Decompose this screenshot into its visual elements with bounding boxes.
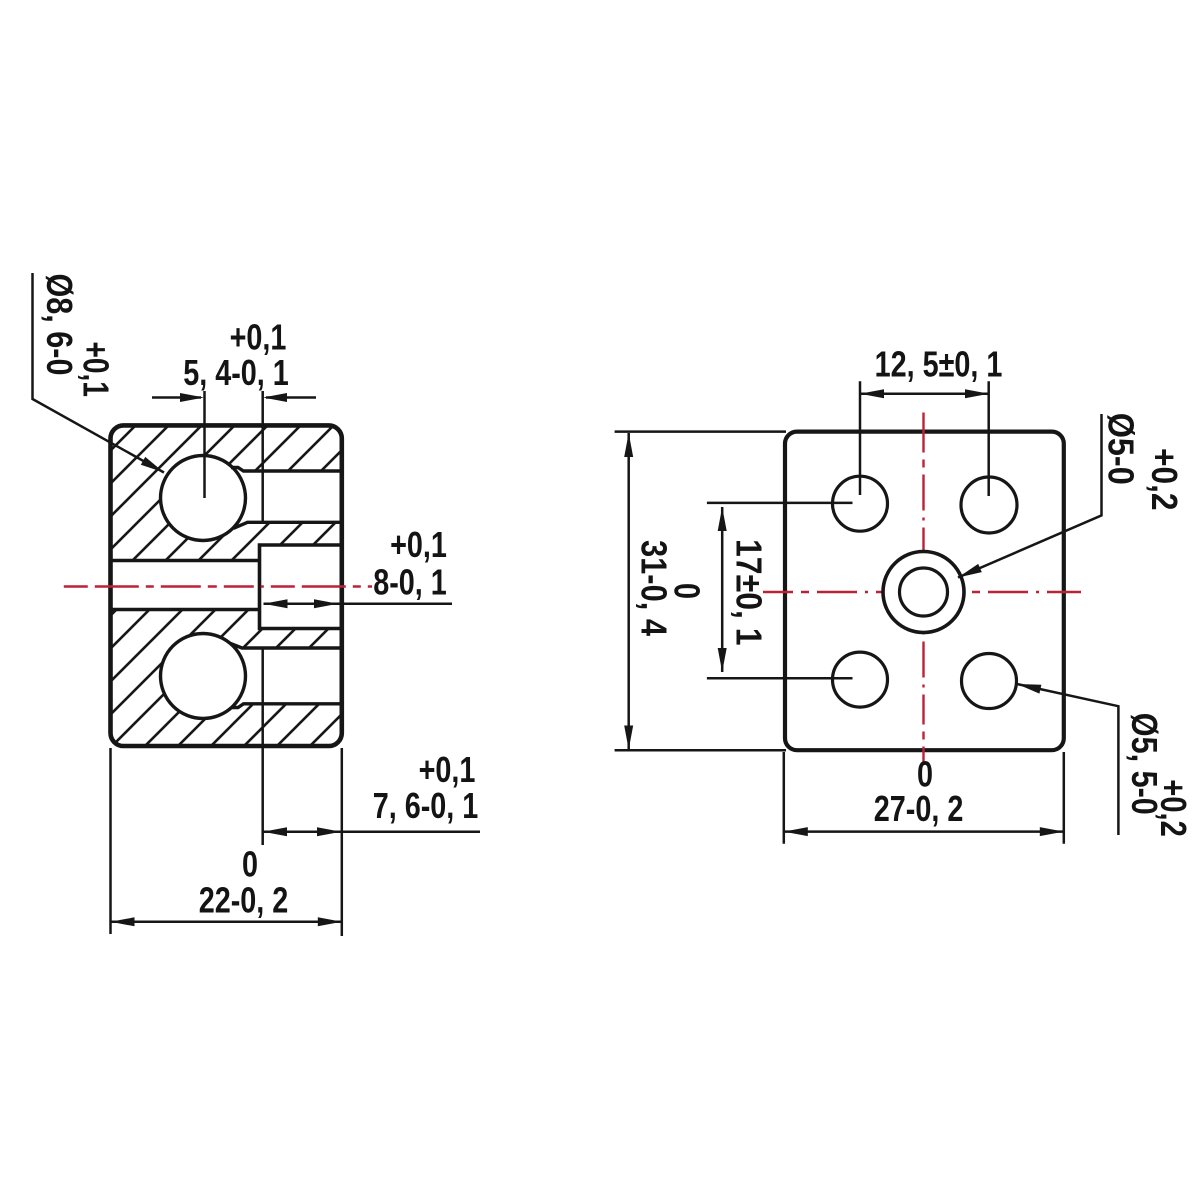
svg-text:31-0, 4: 31-0, 4 — [633, 540, 673, 636]
dimension 31 line — [627, 433, 630, 750]
svg-text:+0,1: +0,1 — [419, 749, 476, 790]
svg-text:+0,1: +0,1 — [76, 342, 116, 397]
dimension 12,5 arrow right-pointing — [965, 389, 989, 398]
left view section body (hatched) — [111, 425, 342, 746]
left view bottom keyhole outline — [161, 634, 341, 719]
svg-text:0: 0 — [242, 843, 258, 884]
dimension 27 arrow left-pointing — [784, 827, 808, 836]
right view center hole inner circle — [900, 568, 948, 616]
svg-text:12, 5±0, 1: 12, 5±0, 1 — [875, 343, 1003, 384]
left view top keyhole outline — [161, 456, 341, 541]
right view red vertical centerline — [922, 413, 924, 766]
dimension 22 line — [111, 921, 342, 924]
dimension 5,4 line left segment — [152, 396, 201, 399]
right view red horizontal centerline — [763, 591, 1083, 593]
dimension 12,5 arrow left-pointing — [860, 389, 884, 398]
dimension 7,6 arrow left-pointing — [263, 827, 287, 836]
dimension 5,4 arrow left-pointing — [263, 393, 287, 402]
dimension 5,4 extension line right — [261, 391, 264, 845]
dimension 7,6 arrow right-pointing — [317, 827, 341, 836]
diameter 5 leader arrowhead — [958, 564, 982, 578]
dimension 7,6 right extension line (part right edge extended) — [341, 748, 344, 936]
dimension 7,6 line — [262, 830, 481, 833]
dimension 5,4 extension line at circle center — [203, 391, 206, 498]
svg-text:+0,2: +0,2 — [1144, 448, 1184, 511]
diameter 5 leader line — [958, 414, 1102, 578]
right view plate outline — [785, 432, 1064, 751]
diameter 8,6 leader arrowhead — [141, 457, 164, 473]
svg-text:5, 4-0, 1: 5, 4-0, 1 — [183, 352, 289, 393]
dimension 27 line — [784, 830, 1064, 833]
left view bottom keyhole slot cutout (white) — [161, 634, 341, 719]
dimension 31 arrow down-pointing — [624, 726, 633, 750]
dimension 12,5 extension lines — [860, 381, 989, 496]
svg-text:Ø8, 6-0: Ø8, 6-0 — [38, 274, 78, 376]
diameter 5,5 leader line — [1017, 684, 1118, 835]
dimension 27 extension lines — [784, 752, 1064, 844]
dimension 12,5 line — [860, 392, 989, 395]
right view bottom-right hole — [962, 654, 1017, 709]
right view center hole outer circle — [883, 552, 964, 633]
dimension 31 extension lines — [615, 432, 786, 751]
svg-text:8-0, 1: 8-0, 1 — [373, 561, 447, 602]
svg-text:+0,1: +0,1 — [390, 524, 447, 565]
dimension 17 extension lines — [707, 503, 853, 678]
dimension 8 line — [264, 603, 453, 606]
dimension 8 arrow right-pointing — [314, 599, 338, 608]
dimension 5,4 line right segment — [266, 396, 316, 399]
svg-text:17±0, 1: 17±0, 1 — [728, 539, 768, 646]
svg-text:7, 6-0, 1: 7, 6-0, 1 — [373, 785, 479, 826]
dimension 22 arrow left-pointing — [111, 917, 135, 926]
svg-text:27-0, 2: 27-0, 2 — [874, 788, 964, 829]
right view top-left hole — [833, 476, 888, 531]
dimension 22 left extension line — [109, 748, 112, 934]
dimension 22 arrow right-pointing — [318, 917, 342, 926]
left view top keyhole slot cutout (white) — [161, 456, 341, 541]
dimension 17 line — [721, 507, 724, 672]
dimension 31 arrow up-pointing — [624, 433, 633, 457]
left view notch outline — [260, 545, 342, 629]
svg-text:Ø5-0: Ø5-0 — [1100, 413, 1140, 485]
dimension 17 arrow down-pointing — [718, 648, 727, 672]
right view bottom-left hole — [833, 652, 888, 707]
dimension 17 arrow up-pointing — [718, 507, 727, 531]
left view right notch cutout (white) — [260, 545, 342, 629]
right view top-right hole — [961, 477, 1017, 533]
dimension 27 arrow right-pointing — [1040, 827, 1064, 836]
dimension 8 arrow left-pointing — [264, 599, 288, 608]
left view outer body outline — [111, 425, 342, 746]
left view center bore cutout (white) — [112, 561, 260, 610]
svg-text:+0,2: +0,2 — [1153, 779, 1194, 837]
dimension 5,4 arrow right-pointing — [180, 393, 204, 402]
left view red centerline — [64, 585, 372, 587]
svg-text:22-0, 2: 22-0, 2 — [199, 879, 289, 920]
diameter 8,6 leader line — [33, 273, 165, 473]
left view center bore outline — [111, 561, 260, 610]
diameter 5,5 leader arrowhead — [1017, 684, 1041, 694]
